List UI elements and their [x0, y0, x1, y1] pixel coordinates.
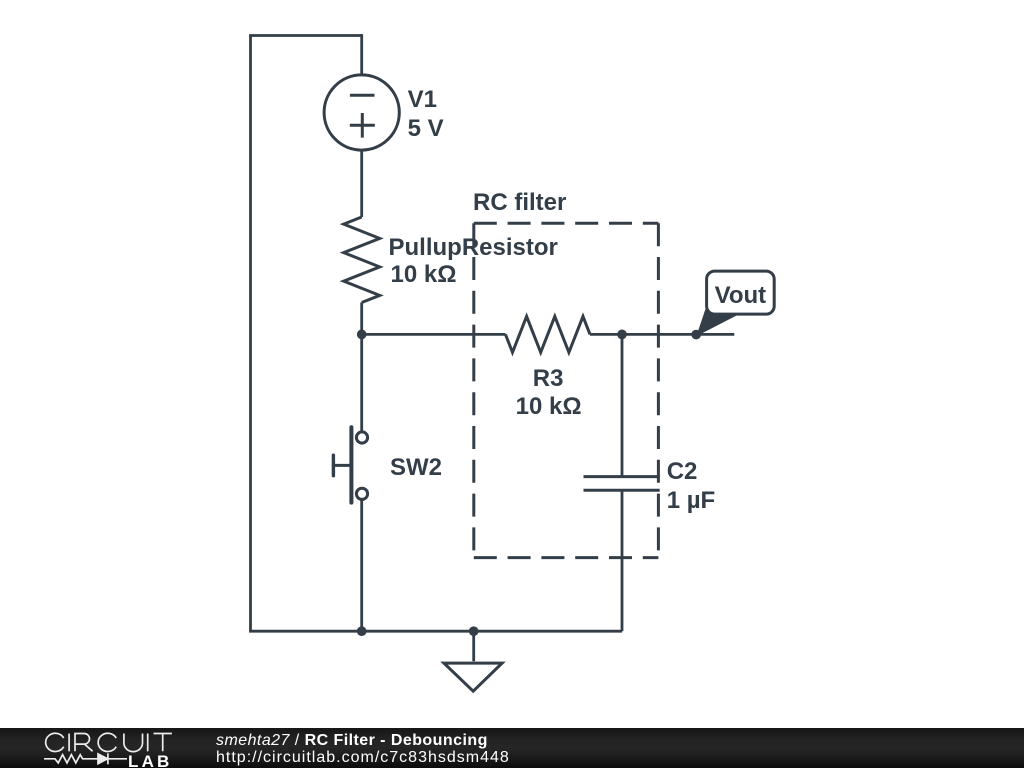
letter I — [147, 734, 149, 752]
CircuitLab logo resistor-diode glyph — [44, 751, 128, 767]
glyph wire and resistor zigzag — [44, 755, 127, 763]
V1 minus sign — [350, 94, 375, 97]
SW2 top terminal circle — [356, 432, 367, 443]
glyph diode bar — [107, 753, 109, 764]
label SW2 — [390, 456, 442, 480]
glyph diode — [98, 754, 108, 764]
wire V1 bottom stem — [360, 150, 363, 217]
label RC filter — [473, 191, 566, 215]
CircuitLab logo wordmark LAB — [128, 752, 173, 768]
wire SW2 bottom stem — [360, 500, 363, 632]
letter R — [75, 734, 93, 752]
wire V1 top stem — [360, 34, 363, 75]
value 10 kOhm (R3) — [516, 395, 582, 419]
voltage source V1 circle — [324, 75, 399, 150]
SW2 bottom terminal circle — [356, 488, 367, 499]
footer title text — [216, 732, 488, 750]
label V1 — [408, 88, 437, 112]
letter C — [46, 733, 64, 751]
capacitor C2 top plate — [584, 475, 660, 478]
letter U — [124, 734, 143, 752]
node A junction dot (pullup/switch/R3) — [357, 330, 367, 340]
ground stem — [472, 631, 475, 661]
V1 plus sign — [350, 113, 375, 138]
value 10 kOhm (pullup) — [391, 263, 457, 287]
label C2 — [667, 460, 698, 484]
resistor PullupResistor zigzag — [344, 217, 380, 303]
resistor R3 zigzag — [506, 316, 591, 352]
label R3 — [533, 367, 564, 391]
letter T — [154, 734, 172, 752]
capacitor C2 bottom plate — [584, 489, 660, 492]
node B junction dot (R3/C2) — [617, 330, 627, 340]
footer black bar — [0, 728, 1024, 768]
value 1 uF — [667, 489, 716, 513]
footer url text — [216, 749, 510, 767]
node D junction dot (ground/bottom rail) — [469, 626, 479, 636]
wire below PullupResistor — [360, 303, 363, 335]
switch SW2 body — [333, 427, 367, 502]
wire C2 top stem — [621, 334, 624, 476]
wire bottom horizontal — [249, 630, 622, 633]
CircuitLab logo wordmark CIRCUIT (thin geometric letters) — [40, 730, 180, 768]
letter I — [68, 734, 70, 752]
wire left vertical — [249, 36, 252, 632]
Vout flag tail — [696, 310, 738, 337]
wire node row horizontal left — [362, 333, 506, 336]
label PullupResistor — [389, 236, 558, 260]
RC filter dashed box — [474, 223, 659, 557]
wire node row horizontal right — [590, 333, 734, 336]
value 5 V — [408, 117, 444, 141]
SW2 actuator bar — [349, 427, 353, 502]
ground triangle — [444, 663, 502, 691]
wire C2 bottom stem — [621, 490, 624, 631]
wire top horizontal — [249, 34, 362, 37]
node C junction dot (switch/bottom rail) — [357, 626, 367, 636]
wire SW2 top stem — [360, 334, 363, 431]
SW2 plunger stem — [333, 464, 351, 467]
letter C — [98, 733, 116, 751]
label Vout — [715, 284, 767, 308]
SW2 plunger tick — [332, 455, 335, 476]
node Vout junction dot — [691, 330, 701, 340]
Vout flag box — [707, 271, 775, 314]
